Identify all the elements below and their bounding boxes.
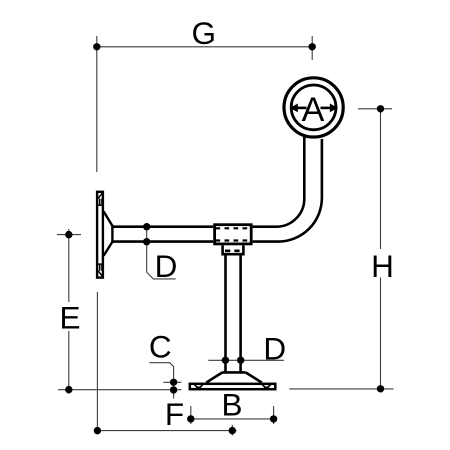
- dot F right: [229, 427, 236, 434]
- tee hidden dashes: [216, 228, 251, 240]
- handrail section circle outer: [284, 78, 343, 137]
- base plate right screw hole: [261, 384, 271, 390]
- dot G left: [93, 43, 100, 50]
- elbow tube to circle: [253, 136, 322, 242]
- dimension F line: [97, 425, 236, 436]
- wall flange top screw hole: [97, 192, 104, 205]
- svg-text:E: E: [59, 299, 80, 335]
- dot D2 right: [237, 357, 244, 364]
- dot F left: [94, 427, 101, 434]
- wall flange bottom screw hole: [97, 264, 104, 277]
- dimension E line: [68, 229, 70, 394]
- diameter arrow left: [290, 104, 307, 113]
- dimension E top tick: [57, 234, 81, 236]
- dot G right: [309, 43, 316, 50]
- wall flange plate: [97, 192, 103, 278]
- dot D2 left: [222, 357, 229, 364]
- dimension G line: [97, 46, 312, 48]
- dimension B line: [191, 406, 274, 424]
- dot E bottom: [65, 386, 72, 393]
- dot D1 bottom: [143, 238, 150, 245]
- floor line right: [289, 388, 393, 390]
- wall flange cone: [104, 211, 113, 255]
- dimension G extension line left lower (wall to floor): [96, 292, 98, 435]
- tee fitting: [215, 225, 252, 244]
- dot C bottom: [170, 386, 177, 393]
- dot D1 top: [143, 223, 150, 230]
- dimension H extension top: [358, 108, 392, 110]
- dimension G extension line right: [311, 36, 313, 60]
- dot B right: [270, 415, 277, 422]
- dimension dots: [65, 43, 384, 434]
- dot E top: [65, 231, 72, 238]
- svg-text:D: D: [155, 248, 178, 284]
- diameter arrow right: [321, 104, 338, 113]
- svg-text:A: A: [302, 91, 325, 129]
- svg-text:C: C: [149, 328, 172, 364]
- svg-text:H: H: [371, 248, 394, 284]
- dot H bottom: [377, 385, 384, 392]
- pedestal stem: [226, 254, 241, 372]
- svg-text:B: B: [221, 387, 242, 423]
- svg-text:G: G: [191, 15, 216, 51]
- dot B left: [187, 415, 194, 422]
- svg-text:D: D: [263, 330, 286, 366]
- base plate left screw hole: [194, 384, 204, 390]
- floor line left (through E and C dots): [58, 389, 181, 391]
- dot C top: [170, 379, 177, 386]
- base plate: [190, 384, 275, 389]
- horizontal tube: [112, 227, 213, 242]
- dot H top: [377, 105, 384, 112]
- leader of label C: [149, 363, 181, 399]
- handrail section circle inner: [291, 85, 336, 130]
- tee neck: [223, 245, 244, 254]
- leader of label D1: [147, 227, 176, 279]
- dimension G extension line left (wall line): [96, 36, 98, 172]
- svg-text:F: F: [165, 396, 184, 432]
- pedestal cone: [206, 372, 262, 382]
- dimension D2 line: [208, 359, 284, 361]
- dimension H line: [380, 109, 382, 389]
